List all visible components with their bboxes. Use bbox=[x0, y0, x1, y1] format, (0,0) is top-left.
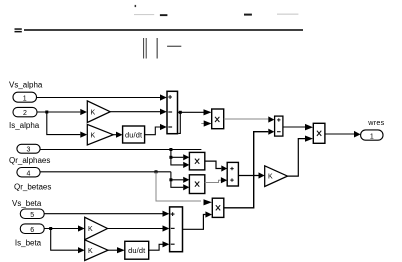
sum block sum2 bbox=[275, 116, 283, 136]
product X2 bbox=[189, 152, 204, 170]
sum block sum1 bbox=[167, 91, 178, 133]
wire product X5 to outport bbox=[325, 133, 354, 135]
wire gain K5 up to product X5 lower input bbox=[288, 139, 306, 177]
outport 1 wres bbox=[361, 130, 383, 140]
equation numerator faint bar 2 bbox=[277, 14, 298, 15]
gain K1 bbox=[87, 101, 110, 123]
gain K2 bbox=[87, 124, 113, 145]
junction node on branch bbox=[169, 156, 172, 159]
svg-text:2: 2 bbox=[23, 110, 27, 117]
wire product X3 to sum4 (grey) bbox=[205, 180, 221, 182]
wire branch from wire4 to product X3 input 2 bbox=[171, 180, 183, 188]
wire inport6 to gain K3 bbox=[44, 228, 78, 230]
inport 1 Vs_alpha bbox=[13, 92, 37, 102]
gain K5 bbox=[265, 166, 288, 187]
product X1 bbox=[212, 109, 224, 129]
svg-text:K: K bbox=[88, 248, 93, 255]
equation numerator faint bar 1 bbox=[134, 14, 154, 15]
equation prime tick bbox=[135, 5, 137, 7]
wire product X2 to sum4 bbox=[205, 161, 222, 168]
derivative block du/dt 2 bbox=[125, 241, 149, 259]
equation denominator double bar bbox=[143, 38, 147, 59]
inport 6 Is_beta bbox=[20, 224, 44, 234]
svg-text:Qr_alphaes: Qr_alphaes bbox=[9, 156, 50, 165]
wire inport1 to sum1 bbox=[37, 97, 161, 99]
wire gain K3 to sum3 bbox=[108, 228, 163, 230]
svg-text:du/dt: du/dt bbox=[128, 246, 145, 255]
inport 4 Qr_betaes bbox=[17, 168, 40, 178]
wire gain K2 to du/dt 1 bbox=[113, 134, 116, 136]
wire sum1 to product X1 bbox=[178, 111, 204, 113]
wire sum4 to gain K5 bbox=[238, 175, 258, 177]
equation denominator minus bbox=[167, 46, 181, 47]
svg-text:K: K bbox=[91, 109, 96, 116]
svg-text:K: K bbox=[88, 226, 93, 233]
svg-text:3: 3 bbox=[27, 147, 31, 154]
wire sum2 to product X5 bbox=[283, 126, 305, 128]
svg-text:6: 6 bbox=[30, 227, 34, 234]
wire branch from wire4 to product X3 input 1 bbox=[171, 172, 183, 180]
sum block sum3 bbox=[170, 207, 183, 252]
junction node on wire 3 bbox=[169, 148, 172, 151]
svg-text:4: 4 bbox=[27, 170, 31, 177]
gain K4 bbox=[85, 240, 108, 261]
svg-text:1: 1 bbox=[23, 96, 27, 103]
wire gain K4 to du/dt 2 bbox=[108, 249, 117, 251]
derivative block du/dt 1 bbox=[123, 126, 145, 143]
wire grey from wire4 down to product X4 input 1 bbox=[156, 172, 201, 201]
wire branch from wire3 to product X2 input 1 bbox=[171, 150, 183, 158]
junction node on wire 6 bbox=[49, 227, 52, 230]
wire sum3 to product X4 lower input bbox=[183, 215, 206, 230]
wire product X4 up to sum2 minus input bbox=[224, 132, 268, 208]
junction node on sum1 output bbox=[179, 111, 182, 114]
svg-text:Qr_betaes: Qr_betaes bbox=[14, 183, 51, 192]
svg-text:1: 1 bbox=[370, 133, 374, 140]
inport 5 Vs_beta bbox=[20, 209, 44, 219]
svg-text:Is_alpha: Is_alpha bbox=[9, 121, 40, 130]
svg-text:K: K bbox=[268, 174, 273, 181]
gain K3 bbox=[85, 217, 108, 239]
wire inport4 to corner bbox=[40, 171, 171, 173]
svg-text:K: K bbox=[91, 132, 96, 139]
equation numerator minus 1 bbox=[160, 14, 168, 16]
svg-text:Is_beta: Is_beta bbox=[15, 238, 42, 247]
wire gain K1 to sum1 bbox=[110, 111, 160, 113]
sum block sum4 bbox=[227, 162, 238, 186]
wire inport2 to gain K1 bbox=[37, 111, 80, 113]
svg-text:du/dt: du/dt bbox=[125, 130, 142, 139]
wire branch from wire3 to product X2 input 2 bbox=[171, 157, 183, 165]
wire du/dt 1 to sum1 third input bbox=[145, 127, 160, 135]
wire inport5 to sum3 bbox=[44, 213, 162, 215]
wire branch down from wire6 to gain K4 bbox=[51, 229, 78, 251]
wire loop from sum1 output down bbox=[178, 112, 180, 133]
svg-text:Vs_beta: Vs_beta bbox=[12, 199, 42, 208]
equation numerator minus 2 bbox=[244, 14, 252, 16]
svg-text:Vs_alpha: Vs_alpha bbox=[9, 80, 43, 89]
inport 3 Qr_alphaes bbox=[17, 144, 40, 153]
product X3 bbox=[189, 175, 204, 194]
junction node on wire 2 bbox=[45, 111, 48, 114]
equation denominator single bar bbox=[157, 38, 158, 59]
wire grey stub into product X1 lower input bbox=[201, 123, 204, 125]
wire du/dt 2 to sum3 third input bbox=[149, 244, 163, 250]
equation main fraction bar bbox=[24, 29, 303, 31]
junction node on wire 4 bbox=[155, 170, 158, 173]
wire product X1 to sum2 (grey) bbox=[224, 118, 269, 120]
junction node on branch4 bbox=[169, 178, 172, 181]
wire inport3 rightwards bbox=[40, 149, 201, 151]
svg-text:wres: wres bbox=[367, 118, 384, 127]
svg-text:5: 5 bbox=[30, 212, 34, 219]
inport 2 Is_alpha bbox=[13, 107, 37, 117]
product X4 bbox=[212, 198, 224, 217]
equation equals sign bbox=[15, 28, 22, 32]
product X5 final bbox=[313, 123, 325, 143]
wire branch down from wire2 to gain K2 bbox=[47, 112, 81, 135]
